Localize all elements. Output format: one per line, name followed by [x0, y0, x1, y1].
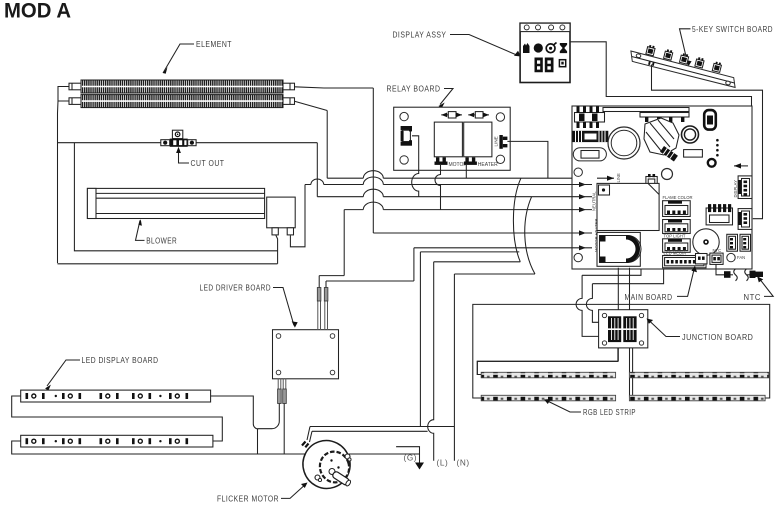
ground symbol	[396, 447, 424, 470]
wire relay left conn out	[412, 136, 419, 197]
led display board strip 1	[21, 390, 211, 402]
rgb led strip row2 left	[481, 395, 615, 401]
wire motor rail lower	[312, 430, 428, 432]
key switch 3	[679, 53, 689, 64]
svg-text:(G): (G)	[404, 454, 418, 463]
led display board strip 2	[21, 435, 213, 447]
svg-text:(L): (L)	[437, 459, 449, 468]
rgb led strip row1 left	[481, 372, 615, 378]
5-key switch board	[631, 51, 735, 87]
wire main board to junction left pair	[586, 269, 663, 322]
element heating coil row 1	[69, 80, 295, 93]
relay 2	[464, 122, 492, 157]
svg-text:FAN: FAN	[737, 255, 745, 260]
flicker motor	[297, 434, 357, 494]
main board transformer	[706, 204, 732, 225]
wire N riser	[453, 274, 455, 461]
svg-text:CUT OUT: CUT OUT	[191, 159, 225, 168]
wire cutout feed	[58, 142, 318, 144]
wire relay conn riser	[343, 210, 345, 276]
main board display arrow	[734, 163, 748, 168]
main board key connector	[738, 209, 752, 230]
wire element row2 riser	[326, 111, 328, 179]
main board lower relay	[597, 232, 641, 266]
main board second bar	[640, 113, 689, 123]
svg-text:NTC: NTC	[744, 293, 762, 302]
main board FAN connectors	[727, 234, 751, 260]
wire element-left down riser	[57, 113, 59, 263]
key pins under board	[648, 61, 654, 66]
display 88 digits	[535, 58, 554, 73]
svg-text:FLICKER MOTOR: FLICKER MOTOR	[217, 495, 279, 504]
svg-text:MAIN BOARD: MAIN BOARD	[625, 293, 673, 302]
cut out label	[176, 147, 224, 168]
wire line rail C with hop	[327, 171, 572, 179]
wire rgb enclosure loop	[473, 304, 770, 398]
main board mounting holes	[574, 168, 582, 176]
wire driver rail B	[326, 280, 414, 282]
wire strip2 to ground rail	[12, 441, 420, 454]
led driver board label	[200, 284, 298, 328]
wire cutout vertical	[316, 143, 318, 197]
svg-text:5-KEY SWITCH BOARD: 5-KEY SWITCH BOARD	[692, 25, 773, 34]
wire 5key to main board	[652, 65, 763, 219]
main board rounded component	[704, 110, 716, 130]
key switch 1	[646, 45, 656, 56]
svg-text:BLOWER: BLOWER	[146, 237, 177, 246]
main board oval component	[573, 148, 606, 161]
wire neutral rail B with hop	[317, 189, 572, 196]
wire motor rail upper	[310, 426, 454, 428]
svg-text:LED DISPLAY BOARD: LED DISPLAY BOARD	[82, 356, 159, 365]
main board small ring	[708, 159, 716, 167]
svg-text:ELEMENT: ELEMENT	[196, 40, 232, 49]
rgb led strip label	[544, 399, 636, 417]
main board dot column	[716, 139, 719, 157]
wire motor leads	[307, 427, 312, 443]
svg-text:HEATER: HEATER	[478, 162, 498, 168]
main board FLAME COLOR connector	[663, 195, 693, 217]
diode symbol 2	[468, 112, 489, 118]
junction board label	[647, 319, 754, 343]
wire neutral rail D with hop	[344, 202, 572, 209]
main board NTC connector	[696, 248, 724, 264]
main board LED MEDIA connector	[663, 251, 706, 268]
svg-text:FLAME COLOR: FLAME COLOR	[663, 195, 693, 200]
relay board left connector	[401, 126, 412, 146]
display assy	[520, 23, 570, 82]
svg-text:JUNCTION BOARD: JUNCTION BOARD	[682, 333, 753, 342]
svg-text:LED MEDIA: LED MEDIA	[664, 251, 687, 256]
wire relay motor term down with hop	[435, 165, 440, 210]
relay board label	[387, 85, 454, 109]
main board TOP LIGHT connector	[663, 234, 691, 253]
diode symbol 1	[441, 112, 462, 118]
display assy label	[393, 31, 522, 57]
NTC thermistor pair	[716, 264, 763, 280]
display icon circle	[534, 43, 543, 52]
main board entry arrows	[572, 182, 592, 251]
wire element left bracket	[58, 87, 70, 114]
svg-text:DISPLAY ASSY: DISPLAY ASSY	[393, 31, 447, 40]
main board small rect	[684, 150, 703, 158]
main board big capacitor	[608, 127, 640, 159]
wire strip1 to strip2	[12, 396, 223, 441]
wire line rail to L stub	[58, 263, 278, 265]
main board top bus bar	[603, 108, 689, 112]
display icon flame	[523, 43, 531, 53]
svg-text:LINE: LINE	[616, 173, 621, 183]
element heating coil row 2	[69, 95, 295, 108]
wire element row2 right to V6	[295, 101, 328, 110]
relay terminal MOTOR	[435, 157, 468, 168]
wire arc1 sweep	[434, 178, 521, 262]
main board connector 2	[663, 220, 691, 234]
led driver board	[273, 330, 339, 379]
relay board	[394, 107, 511, 170]
svg-text:RGB LED STRIP: RGB LED STRIP	[583, 408, 636, 417]
wire motor rail to board	[373, 232, 572, 234]
wire heater rail to board	[414, 247, 572, 249]
svg-text:DISPLAY: DISPLAY	[733, 180, 738, 198]
svg-text:RELAY BOARD: RELAY BOARD	[387, 85, 441, 94]
svg-text:LINE: LINE	[494, 136, 499, 146]
display icon hourglass	[560, 43, 567, 53]
wire motor riser	[420, 252, 519, 427]
wire junction to strip row2 gap	[629, 348, 632, 398]
wire display to main board	[570, 42, 752, 176]
wire box-left riser	[74, 143, 277, 251]
wire led media pass-through to strips	[618, 268, 629, 398]
key switch 4	[695, 57, 705, 68]
main board buzzer	[693, 229, 719, 255]
wire arc2 sweep	[454, 197, 535, 274]
NTC label	[744, 276, 774, 302]
relay LINE connector	[494, 135, 508, 149]
svg-text:(N): (N)	[457, 459, 470, 468]
main board LINE stub	[597, 173, 621, 183]
wire element row1 riser	[372, 88, 374, 233]
svg-text:MOD A: MOD A	[4, 0, 71, 23]
wire heater riser	[413, 248, 415, 281]
main board DISPLAY connector	[733, 176, 752, 199]
svg-text:LED DRIVER BOARD: LED DRIVER BOARD	[200, 284, 272, 293]
element label	[163, 40, 232, 74]
wire strip1 right jog	[211, 396, 259, 454]
led driver top wire sleeves	[317, 276, 328, 330]
svg-text:NTC: NTC	[713, 248, 722, 253]
wire L riser with hop	[428, 262, 434, 461]
relay 1	[434, 122, 462, 157]
rgb led strip row1 right	[629, 372, 768, 378]
svg-text:TOP LIGHT: TOP LIGHT	[664, 234, 686, 239]
main board ring capacitor	[682, 126, 699, 143]
cut out thermal switch	[161, 130, 196, 147]
wire neutral rail A with hops	[305, 177, 572, 185]
main board circle mid	[662, 169, 673, 180]
flicker motor label	[217, 483, 308, 504]
wire element row1 right to V7	[295, 87, 374, 88]
wire driver rail	[319, 275, 344, 277]
display icon clock	[546, 43, 556, 53]
5-key switch board label	[680, 25, 774, 66]
blower label	[136, 219, 178, 245]
wire junction to strip row1	[477, 348, 618, 375]
key switch 5	[712, 61, 722, 72]
main board inductor	[573, 131, 609, 142]
relay terminal HEATER	[464, 157, 498, 168]
wire relay line out	[507, 141, 548, 178]
main board big relay	[597, 183, 659, 230]
main board 2pin conn mid	[646, 174, 657, 187]
wire blower right leg	[290, 185, 305, 247]
display small square	[559, 60, 565, 67]
led driver bottom wire sleeves	[258, 379, 287, 454]
main board heatsink	[644, 118, 679, 161]
blower right end box	[267, 197, 296, 235]
blower body	[87, 188, 264, 218]
wire relay heater term down	[465, 165, 467, 178]
wire junction to strip row1	[477, 361, 618, 374]
wire blower leg	[276, 235, 278, 264]
led display board label	[45, 356, 158, 391]
junction board	[599, 310, 648, 348]
key switch 2	[664, 49, 674, 60]
rgb led strip row2 right	[629, 395, 765, 401]
main board label	[625, 266, 698, 302]
main board outline	[572, 106, 752, 269]
main board transistor bank	[575, 107, 605, 129]
svg-text:NEUTRAL: NEUTRAL	[592, 191, 597, 211]
